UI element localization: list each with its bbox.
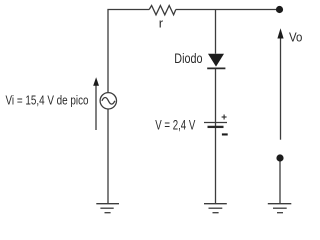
output terminal dot bottom — [276, 154, 283, 161]
wire top horizontal right (resistor to output dot) — [176, 9, 277, 11]
ground middle — [204, 204, 227, 213]
diode D (Diodo) — [207, 54, 225, 69]
svg-text:Vi = 15,4 V de pico: Vi = 15,4 V de pico — [6, 92, 89, 107]
battery minus sign — [222, 133, 228, 135]
svg-text:V = 2,4 V: V = 2,4 V — [155, 117, 195, 132]
wire diode branch drop — [215, 10, 217, 54]
output terminal dot top — [276, 6, 283, 13]
battery plus sign — [222, 115, 227, 120]
Vi annotation arrow — [93, 77, 99, 130]
AC source Vi (circle with sine) — [100, 93, 116, 109]
svg-text:Vo: Vo — [289, 29, 302, 44]
wire source to left ground — [107, 109, 109, 204]
wire bottom-right dot to right ground — [279, 159, 281, 204]
ground left — [96, 204, 119, 213]
ground right — [268, 204, 292, 213]
resistor R (r) — [149, 6, 176, 15]
wire top horizontal left (source to resistor) — [108, 10, 149, 93]
svg-text:r: r — [159, 16, 164, 31]
Vo annotation arrow — [277, 28, 283, 139]
svg-text:Diodo: Diodo — [174, 51, 202, 66]
wire diode to battery to middle ground — [215, 69, 217, 204]
battery V (2,4 V) — [204, 123, 227, 127]
